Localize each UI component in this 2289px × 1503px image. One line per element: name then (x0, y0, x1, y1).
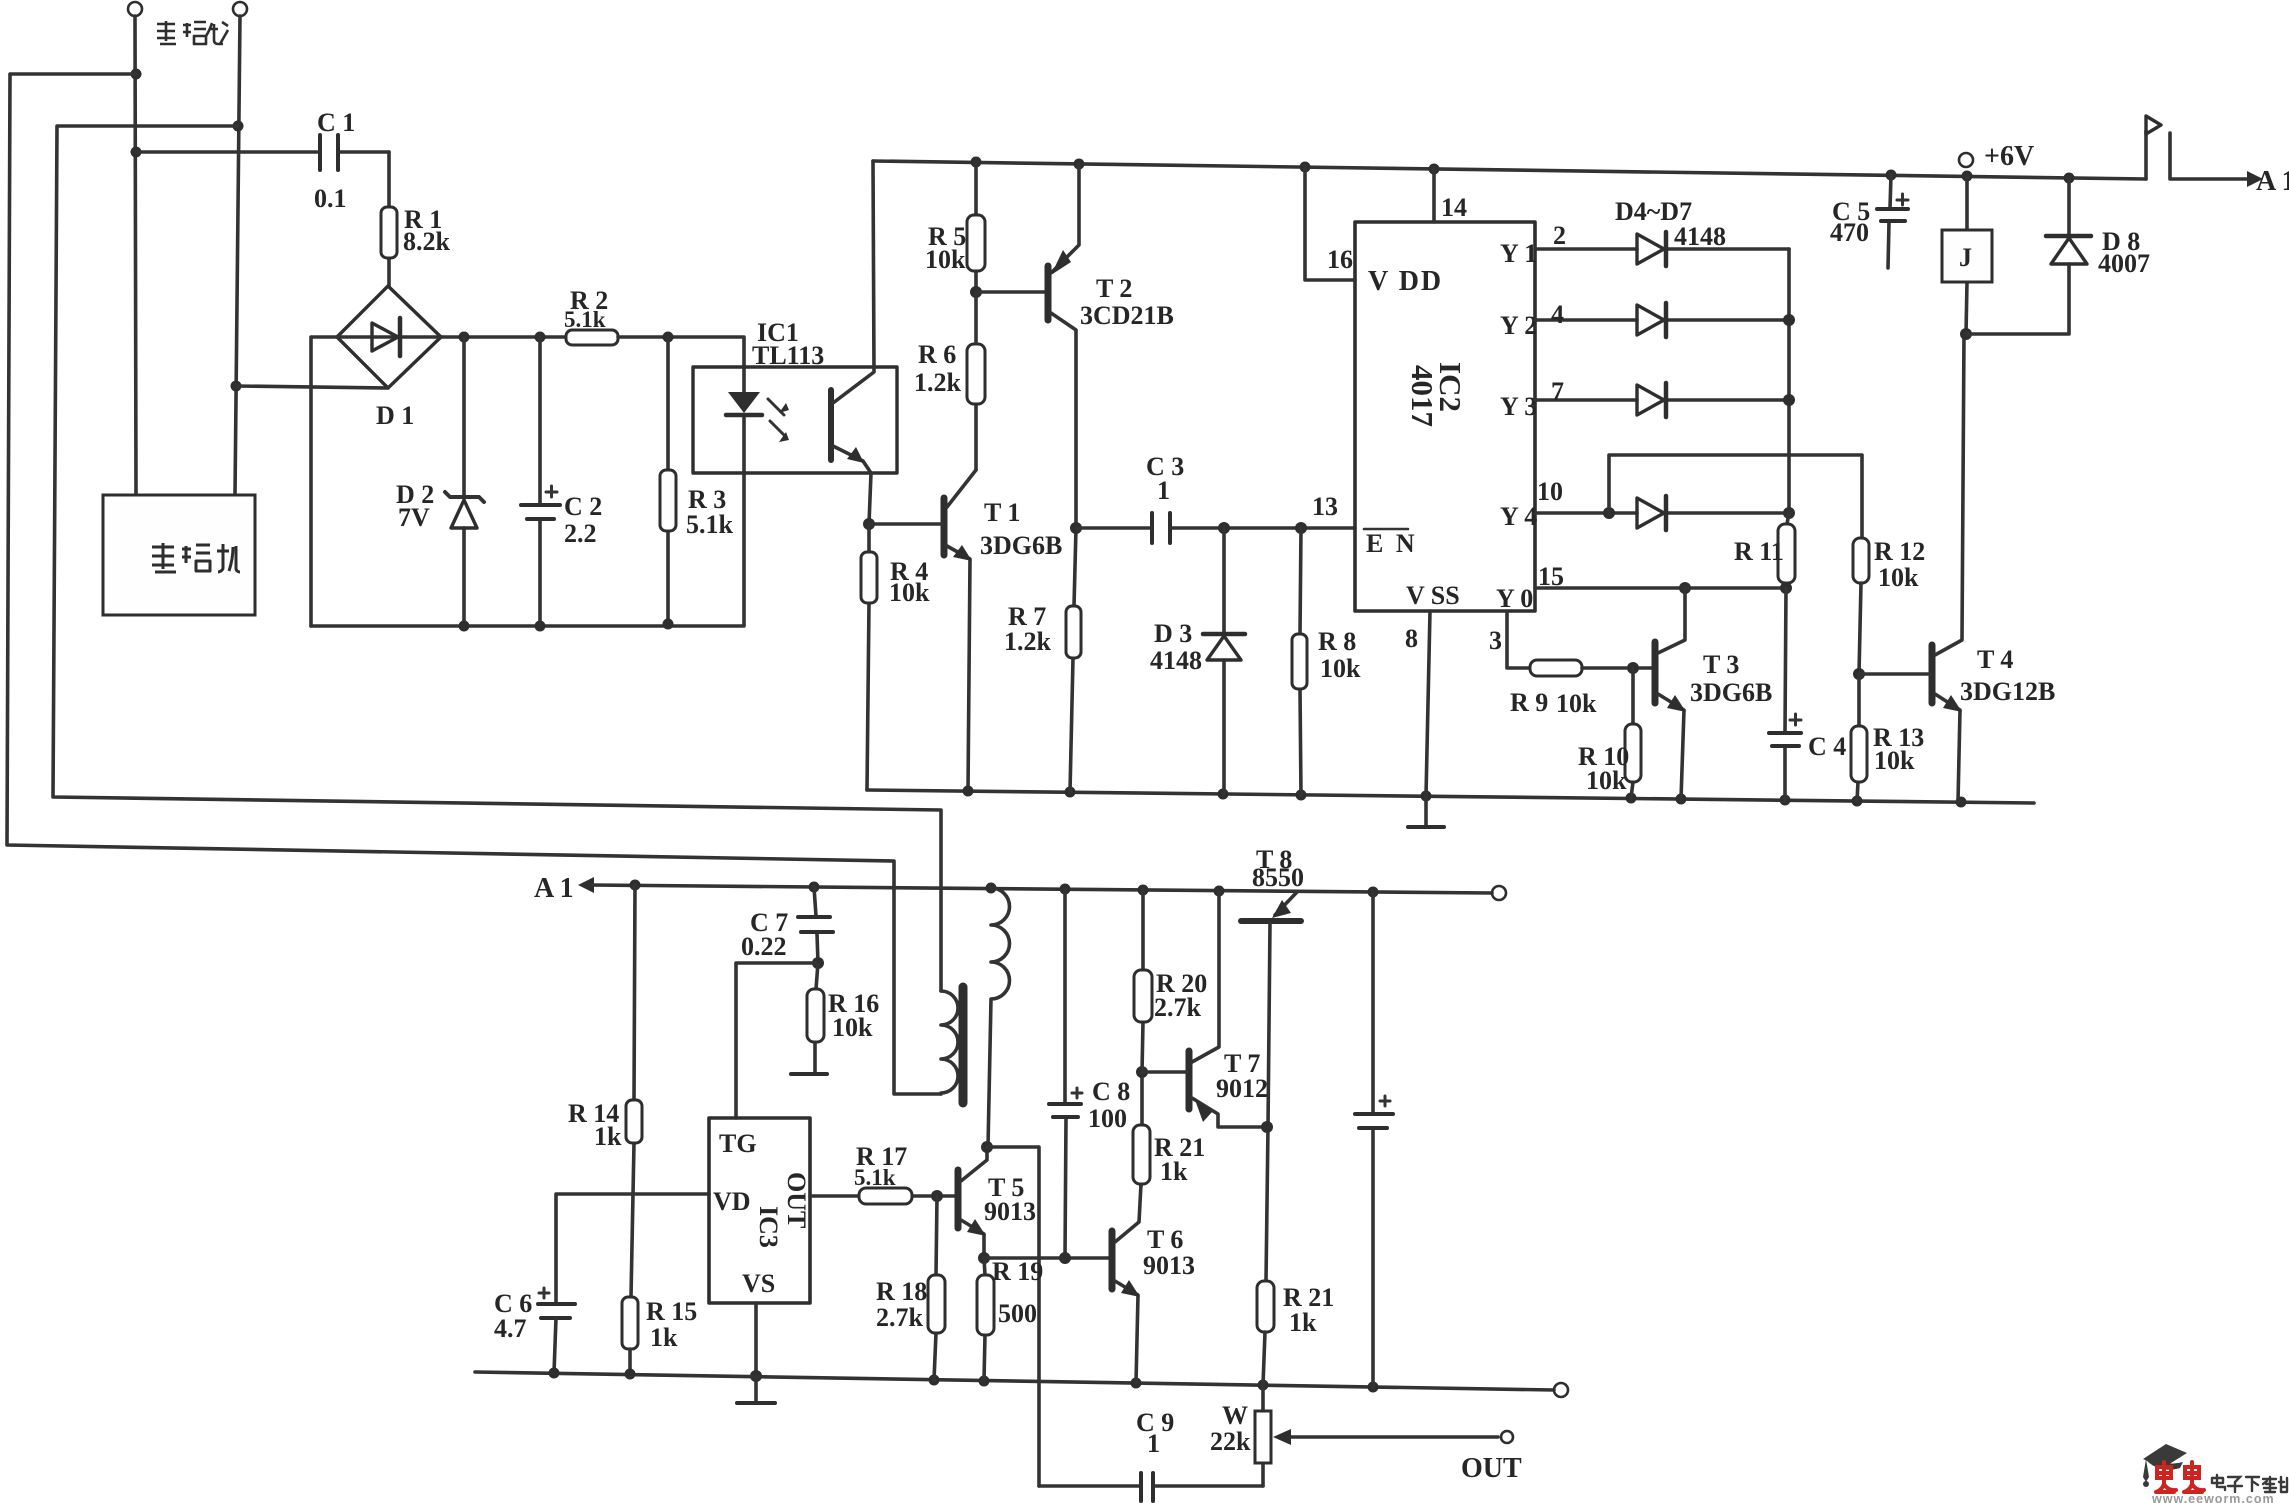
wire TG pin (736, 963, 818, 1118)
transformer core (959, 987, 968, 1103)
diode D5 (1535, 318, 1789, 322)
transistor T3 3DG6B (1652, 642, 1659, 703)
capacitor C1 (136, 150, 389, 154)
connector to A1 at top right (2144, 131, 2148, 179)
pin 8 wire and ground (1426, 611, 1430, 796)
capacitor C2 (538, 337, 542, 626)
svg-text:R 11: R 11 (1734, 537, 1784, 566)
svg-text:IC3: IC3 (754, 1206, 783, 1248)
svg-text:C 1: C 1 (317, 108, 355, 137)
phototransistor inside IC1 (828, 390, 834, 460)
svg-text:7: 7 (1551, 377, 1564, 406)
svg-text:VD: VD (713, 1187, 751, 1216)
wire bridge right output (441, 335, 566, 339)
wire Y0 line pin 15 (1535, 586, 1786, 590)
svg-text:0.1: 0.1 (314, 184, 347, 213)
transistor T2 3CD21B (976, 290, 1046, 294)
transistor T4 3DG12B (1929, 645, 1936, 703)
wire T6 base line (984, 1256, 1109, 1260)
svg-text:9013: 9013 (984, 1197, 1036, 1226)
resistor R16 (815, 963, 818, 1072)
svg-text:4148: 4148 (1674, 222, 1726, 251)
node C8 / T6 base (1059, 1252, 1071, 1264)
resistor R9 (1530, 660, 1582, 676)
watermark 虫虫 red (2156, 1462, 2204, 1492)
node R8 top (1295, 522, 1307, 534)
svg-text:4148: 4148 (1150, 646, 1202, 675)
node junction left/C1 (131, 147, 142, 158)
wire upper ground rail (867, 790, 2034, 803)
svg-text:2.7k: 2.7k (876, 1303, 924, 1332)
wire T5 collector branch to C9 (987, 1147, 1039, 1486)
svg-text:VS: VS (742, 1269, 775, 1298)
svg-text:R 9: R 9 (1510, 688, 1548, 717)
node R5/R6/T2 base (970, 286, 982, 298)
node junction right/bridge (231, 381, 242, 392)
svg-text:A 1: A 1 (534, 873, 574, 904)
resistor R4 (867, 524, 869, 790)
svg-text:C 4: C 4 (1808, 732, 1846, 761)
node C7/R16/TG (812, 957, 824, 969)
svg-text:3CD21B: 3CD21B (1080, 301, 1174, 330)
svg-text:4007: 4007 (2098, 249, 2150, 278)
wire Y4 to R12 (1609, 455, 1862, 538)
svg-text:A 1: A 1 (2256, 166, 2289, 197)
svg-text:J: J (1959, 243, 1972, 272)
svg-text:10k: 10k (1586, 766, 1627, 795)
svg-text:9012: 9012 (1216, 1074, 1268, 1103)
resistor R19 (984, 1258, 985, 1380)
svg-text:1: 1 (1157, 476, 1170, 505)
svg-text:D 3: D 3 (1154, 619, 1192, 648)
resistor R10 (1631, 668, 1633, 798)
svg-text:TG: TG (719, 1129, 757, 1158)
node T1 base / R4 (863, 518, 875, 530)
resistor R6 (974, 292, 978, 470)
node C3/D3 (1218, 522, 1230, 534)
wire negative rail of bridge section (311, 418, 744, 626)
svg-text:E N: E N (1366, 529, 1418, 558)
terminal +6V (1959, 153, 1973, 167)
svg-text:8: 8 (1405, 624, 1418, 653)
transistor T5 9013 (955, 1170, 962, 1228)
optocoupler IC1 TL113 (693, 367, 897, 473)
svg-text:2.2: 2.2 (564, 519, 597, 548)
svg-text:OUT: OUT (1461, 1453, 1522, 1484)
svg-text:10k: 10k (1878, 563, 1919, 592)
svg-text:10: 10 (1537, 477, 1563, 506)
wire OUT pin / resistor R17 (810, 1194, 955, 1198)
svg-text:10k: 10k (925, 245, 966, 274)
light arrows (768, 399, 784, 435)
svg-text:8550: 8550 (1252, 863, 1304, 892)
svg-text:2: 2 (1553, 221, 1566, 250)
transistor T6 9013 (1109, 1231, 1116, 1289)
wire inner loop to transformer secondary top (53, 126, 941, 991)
ground pin 8 (1424, 796, 1428, 825)
wire diode bus (1787, 249, 1791, 513)
svg-text:1k: 1k (1160, 1157, 1188, 1186)
diode D7 (1535, 511, 1789, 515)
LED inside IC1 (728, 392, 760, 413)
svg-text:TL113: TL113 (752, 341, 824, 370)
potentiometer W 22k (1261, 1385, 1265, 1486)
electrolytic capacitor right (1371, 892, 1375, 1387)
svg-text:3DG12B: 3DG12B (1960, 677, 2055, 706)
capacitor C3 (1076, 526, 1355, 530)
svg-text:10k: 10k (1556, 689, 1597, 718)
wire VS pin and ground (754, 1303, 758, 1376)
resistor R8 (1300, 528, 1301, 795)
svg-text:4017: 4017 (1405, 365, 1440, 427)
resistor R2 (566, 330, 618, 345)
resistor R12 (1853, 538, 1869, 583)
resistor R3 (666, 337, 670, 624)
svg-text:V DD: V DD (1368, 266, 1443, 297)
svg-text:5.1k: 5.1k (686, 510, 734, 539)
svg-text:0.22: 0.22 (741, 932, 787, 961)
svg-text:500: 500 (998, 1299, 1037, 1328)
resistor R7 (1070, 528, 1076, 792)
node junction left/outer (131, 69, 142, 80)
watermark logo cap (2143, 1444, 2187, 1487)
IC3 box (709, 1118, 810, 1303)
svg-text:Y 0: Y 0 (1496, 584, 1533, 613)
svg-text:1.2k: 1.2k (1004, 627, 1052, 656)
svg-text:V SS: V SS (1406, 581, 1460, 610)
resistor R14 (631, 885, 635, 1297)
svg-text:14: 14 (1441, 193, 1467, 222)
ground R16 (791, 1072, 827, 1076)
wire lower ground rail (475, 1372, 1554, 1390)
resistor R21b (1257, 1281, 1274, 1332)
svg-text:1k: 1k (594, 1122, 622, 1151)
relay J (1966, 176, 1967, 334)
transformer secondary winding (941, 991, 958, 1094)
node J bottom / D8 (1960, 328, 1972, 340)
svg-text:1k: 1k (1289, 1308, 1317, 1337)
wire telephone line left conductor (135, 16, 136, 495)
IC2 4017 counter (1355, 222, 1535, 611)
capacitor C5 470 (1888, 175, 1891, 268)
wire VD pin to C6 (556, 1194, 709, 1302)
svg-text:R 19: R 19 (992, 1257, 1043, 1286)
resistor R11 (1786, 513, 1789, 588)
resistor R21a (1141, 1072, 1142, 1186)
svg-text:1: 1 (1147, 1429, 1160, 1458)
terminal telephone line L1 (128, 2, 142, 16)
svg-text:9013: 9013 (1143, 1251, 1195, 1280)
svg-text:15: 15 (1538, 562, 1564, 591)
bridge rectifier D1 (337, 286, 441, 388)
svg-text:C 8: C 8 (1092, 1077, 1130, 1106)
node T4 base (1853, 668, 1865, 680)
svg-text:OUT: OUT (782, 1172, 811, 1228)
svg-text:www.eeworm.com: www.eeworm.com (2151, 1492, 2275, 1503)
svg-text:C 2: C 2 (564, 492, 602, 521)
svg-text:470: 470 (1830, 218, 1869, 247)
svg-text:Y 1: Y 1 (1500, 239, 1537, 268)
svg-text:4: 4 (1551, 300, 1564, 329)
capacitor C8 100 (1065, 889, 1066, 1258)
node junction right/inner (233, 121, 244, 132)
resistor R1 (387, 152, 391, 286)
svg-text:10k: 10k (1320, 654, 1361, 683)
wire bridge bottom AC input (236, 386, 388, 388)
svg-text:10k: 10k (832, 1013, 873, 1042)
svg-text:Y 2: Y 2 (1500, 311, 1537, 340)
svg-text:R 8: R 8 (1318, 627, 1356, 656)
diode D4 (1535, 247, 1789, 251)
node Y4 branch (1603, 507, 1615, 519)
svg-text:R 6: R 6 (918, 340, 956, 369)
node T2 collector / C3 (1070, 522, 1082, 534)
terminal right end of A1 rail (1492, 886, 1506, 900)
wire telephone line right conductor (235, 16, 240, 495)
svg-text:8.2k: 8.2k (403, 227, 451, 256)
svg-text:+6V: +6V (1984, 141, 2034, 172)
svg-text:1.2k: 1.2k (914, 368, 962, 397)
svg-text:R 15: R 15 (646, 1297, 697, 1326)
svg-text:3: 3 (1489, 626, 1502, 655)
capacitor C9 (1039, 1484, 1263, 1488)
svg-text:10k: 10k (1874, 746, 1915, 775)
svg-text:7V: 7V (398, 503, 430, 532)
terminal OUT (1501, 1431, 1513, 1443)
wire A1 rail lower section (578, 877, 594, 893)
svg-text:5.1k: 5.1k (564, 307, 606, 332)
svg-text:T 1: T 1 (984, 498, 1020, 527)
capacitor C7 0.22 (814, 887, 818, 963)
svg-text:Y 4: Y 4 (1500, 502, 1537, 531)
watermark 电子下载站 (2212, 1475, 2287, 1492)
transistor T7 9012 (1186, 1051, 1193, 1109)
resistor R15 (622, 1297, 638, 1349)
diode D3 4148 (1222, 528, 1226, 794)
zener diode D2 7V (462, 337, 466, 626)
wire outer loop to transformer secondary bottom (7, 74, 941, 1094)
node T7 emitter / T8 collector (1261, 1121, 1273, 1133)
transistor T1 3DG6B (941, 498, 948, 555)
svg-text:3DG6B: 3DG6B (1690, 678, 1772, 707)
svg-text:R 18: R 18 (876, 1277, 927, 1306)
svg-text:4.7: 4.7 (494, 1314, 527, 1343)
pin 14 wire (1432, 169, 1436, 222)
svg-text:W: W (1222, 1401, 1248, 1430)
diode D6 (1535, 398, 1789, 402)
svg-text:D 1: D 1 (376, 401, 414, 430)
svg-text:T 3: T 3 (1703, 650, 1739, 679)
resistor R13 (1857, 674, 1859, 801)
resistor R18 (934, 1196, 937, 1380)
transformer primary winding (988, 888, 1010, 1147)
svg-text:3DG6B: 3DG6B (980, 531, 1062, 560)
resistor R20 (1142, 890, 1143, 1072)
svg-text:2.7k: 2.7k (1154, 993, 1202, 1022)
pin 16 wire (1305, 167, 1355, 280)
svg-text:16: 16 (1327, 245, 1353, 274)
svg-text:T 4: T 4 (1977, 645, 2013, 674)
svg-text:R 12: R 12 (1874, 537, 1925, 566)
svg-text:22k: 22k (1210, 1427, 1251, 1456)
pin 3 wire (1507, 611, 1530, 668)
node T5 collector / primary (981, 1141, 993, 1153)
svg-text:1k: 1k (650, 1323, 678, 1352)
resistor R5 (974, 162, 978, 292)
telephone set box 电话机 (103, 495, 255, 615)
node T5 base / R18 (931, 1190, 943, 1202)
svg-text:100: 100 (1088, 1104, 1127, 1133)
terminal telephone line L2 (233, 2, 247, 16)
svg-text:5.1k: 5.1k (854, 1165, 896, 1190)
label 电话线 (157, 21, 228, 44)
wire bridge left output (311, 337, 337, 626)
node T5 emitter / R19 / T6 base (978, 1252, 990, 1264)
svg-text:Y 3: Y 3 (1500, 392, 1537, 421)
svg-text:10k: 10k (889, 578, 930, 607)
capacitor C6 4.7 (538, 1304, 575, 1318)
svg-text:T 2: T 2 (1096, 274, 1132, 303)
terminal right end ground rail (1554, 1383, 1568, 1397)
svg-text:T 6: T 6 (1147, 1225, 1183, 1254)
diode D8 4007 (1966, 178, 2069, 334)
svg-text:13: 13 (1312, 492, 1338, 521)
capacitor C4 (1785, 588, 1786, 800)
node T7 base (1136, 1066, 1148, 1078)
wire +V top rail (873, 161, 2146, 179)
